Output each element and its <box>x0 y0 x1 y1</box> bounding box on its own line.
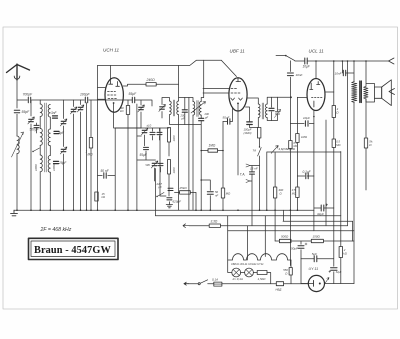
switch left low <box>32 148 39 152</box>
wire x297b <box>296 176 298 210</box>
UCL11 top cap lead <box>315 61 317 79</box>
drop x265 heater <box>264 216 266 257</box>
terminal arrow 1 <box>389 58 395 64</box>
mains wire 2 <box>208 283 214 285</box>
coil core lines <box>45 103 46 172</box>
UBF11 cathode drop <box>237 104 239 175</box>
wire 50nF <box>98 175 116 177</box>
svg-text:25kΩ: 25kΩ <box>179 186 188 190</box>
svg-text:15 nF: 15 nF <box>250 167 258 171</box>
wire coil rail left <box>39 100 41 104</box>
resistor 240ohm <box>146 78 157 86</box>
bus line 3 phono <box>189 225 348 227</box>
resistor 150ohm <box>311 235 323 243</box>
capacitor 50pF grid <box>223 116 230 125</box>
wire x73 drop <box>73 100 75 210</box>
svg-text:7A: 7A <box>253 149 257 153</box>
capacitor 3nF <box>51 111 58 118</box>
svg-text:0,1A: 0,1A <box>212 278 218 282</box>
svg-text:50μF: 50μF <box>291 247 298 251</box>
label UBF11 <box>230 49 246 54</box>
switch 7A main <box>253 146 262 156</box>
svg-text:nF: nF <box>215 194 219 198</box>
antenna <box>7 64 30 80</box>
UBF plate to IF2 <box>247 98 258 104</box>
capacitor 25pF <box>54 161 68 165</box>
svg-text:2F = 468 kHz: 2F = 468 kHz <box>40 227 72 233</box>
output transformer secondary <box>364 86 368 99</box>
svg-text:MΩ: MΩ <box>336 143 340 147</box>
secondary return <box>365 99 367 190</box>
wire agc <box>201 180 210 210</box>
trimmer top c <box>70 107 77 114</box>
label UCL11 <box>309 49 325 54</box>
wire osc cluster B <box>137 151 169 196</box>
heater right drop <box>290 260 292 284</box>
wire between coil groups 1 <box>40 117 50 129</box>
IF3 cap <box>269 108 274 110</box>
title box <box>29 238 119 259</box>
resistor 1M grid <box>200 144 223 153</box>
UBF11 top cap lead <box>221 60 236 76</box>
svg-text:2× 0,1A: 2× 0,1A <box>232 277 243 281</box>
IF3 top right <box>267 97 291 104</box>
svg-text:55μF: 55μF <box>129 92 138 96</box>
label 1000 coil B <box>52 164 56 171</box>
capacitor osc B <box>146 163 164 167</box>
coil osc A <box>168 128 176 143</box>
wire res to bus <box>127 115 129 211</box>
svg-text:T.A.: T.A. <box>240 173 246 177</box>
tube UBF11 <box>229 78 247 111</box>
capacitor 500pF <box>30 125 40 131</box>
capacitor 50uF <box>291 243 307 251</box>
svg-text:1MΩ: 1MΩ <box>209 144 216 148</box>
capacitor 5pF <box>54 131 65 135</box>
capacitor 10nF coupling <box>287 73 302 77</box>
label UY11 <box>309 267 319 271</box>
IF1 cap 200pF <box>180 110 188 121</box>
IF2 cap wires <box>200 115 202 124</box>
capacitor 10uF <box>303 58 311 69</box>
wire trimmer to bus x31 <box>30 124 32 210</box>
IF1 core <box>173 100 174 116</box>
IF2 core arrow <box>191 102 206 114</box>
wire 5uF line <box>301 258 334 260</box>
svg-text:1,5kΩ: 1,5kΩ <box>258 277 267 281</box>
svg-text:50 nF: 50 nF <box>101 169 110 173</box>
resistor 15k <box>95 192 106 201</box>
svg-text:5μF: 5μF <box>312 252 317 256</box>
wire trimmer down <box>140 112 142 128</box>
capacitor 0.1uF <box>303 170 312 179</box>
phono wires <box>250 166 260 226</box>
top rail <box>98 60 222 65</box>
IF1 top wires <box>162 66 204 119</box>
wire cathode res <box>325 91 334 93</box>
svg-text:50μF: 50μF <box>223 116 230 120</box>
wire x80 drop <box>80 100 82 210</box>
trimmer top d <box>77 105 84 112</box>
capacitor 10uF cathode <box>303 116 315 127</box>
svg-text:200: 200 <box>204 112 210 116</box>
heater left drop <box>228 216 232 273</box>
wire sw down <box>259 156 261 210</box>
svg-text:10μF: 10μF <box>303 116 310 120</box>
capacitor 32uF rect <box>329 268 342 274</box>
trimmer IF3 wires <box>272 97 278 120</box>
pot rail <box>267 151 341 153</box>
capacitor 100pF <box>80 93 91 103</box>
capacitor 32uF electro <box>317 204 328 216</box>
wire grid coupling <box>128 100 152 106</box>
filter chain wires <box>275 241 354 244</box>
UCL11 grid lead <box>297 96 307 98</box>
trimmer IF1 primary <box>159 104 166 111</box>
label lamps <box>232 277 243 281</box>
svg-text:Braun - 4547GW: Braun - 4547GW <box>34 245 112 256</box>
wire drop x31 <box>30 100 32 116</box>
resistor cathode UCH <box>120 106 130 115</box>
coil L3a <box>40 129 42 146</box>
IF1 link vertical <box>188 98 190 125</box>
svg-text:150Ω: 150Ω <box>313 235 321 239</box>
lamp wires <box>241 272 258 274</box>
contact phono 2 <box>246 180 250 183</box>
UCL11 cathode cap branch <box>290 123 314 125</box>
bus line 2 <box>156 215 341 217</box>
resistor 0.1M ucl <box>289 141 298 149</box>
variable inductor antenna coil <box>12 132 24 157</box>
resistor diode load <box>258 128 261 139</box>
trimmer osc A <box>141 124 151 135</box>
svg-text:MΩ: MΩ <box>294 144 298 148</box>
wire osc vertical x137 <box>136 104 138 210</box>
svg-text:UBF11 UCL11 UCH11 UY11: UBF11 UCL11 UCH11 UY11 <box>231 262 264 266</box>
svg-text:pF: pF <box>181 117 185 121</box>
lamp line right <box>267 273 271 284</box>
resistor cathode UCL <box>332 106 339 118</box>
wire x203 screen <box>203 60 205 97</box>
lamp 1 <box>232 268 241 277</box>
capacitor 700pF <box>23 93 34 103</box>
IF1 winding a <box>170 101 172 115</box>
resistor 550ohm <box>283 268 292 276</box>
svg-text:3,3Ω: 3,3Ω <box>211 220 218 224</box>
coil L4b <box>48 156 50 173</box>
IF1 bottom wires <box>170 115 202 211</box>
wire x201 avc drop <box>200 125 202 211</box>
IF3 winding b <box>265 104 267 118</box>
capacitor 100pF diode <box>244 122 253 135</box>
svg-text:700pF: 700pF <box>23 93 34 97</box>
wire x266 drop <box>266 152 268 210</box>
switch mains <box>198 280 208 285</box>
svg-text:32μF: 32μF <box>317 212 324 216</box>
wire diode sw <box>259 138 261 147</box>
wire 50uF down <box>300 250 302 259</box>
svg-text:32μF: 32μF <box>336 271 342 274</box>
wire x223 drop <box>222 122 224 211</box>
svg-text:WK: WK <box>146 163 151 167</box>
rail right top <box>295 60 389 62</box>
wire antenna lead <box>17 80 132 108</box>
trimmer UCH grid <box>138 105 145 112</box>
IF2 core <box>197 101 198 117</box>
svg-text:UBF 11: UBF 11 <box>230 49 246 54</box>
coil L4a <box>40 155 42 172</box>
svg-text:1000: 1000 <box>172 135 176 142</box>
svg-text:UCL 11: UCL 11 <box>309 49 325 54</box>
svg-text:10nF: 10nF <box>335 71 342 75</box>
IF3 winding a <box>258 104 260 118</box>
wire osc mid x160 <box>160 128 166 196</box>
capacitor 24.7pF <box>168 188 173 190</box>
IF3 junction dot <box>290 96 292 98</box>
capacitor 620pF <box>167 198 181 204</box>
svg-text:55pF: 55pF <box>22 110 31 114</box>
bus line 2 feed <box>155 169 157 216</box>
svg-text:1000: 1000 <box>172 167 176 174</box>
capacitor link AB <box>144 147 149 149</box>
capacitor 15nF <box>250 172 255 174</box>
svg-text:620μF: 620μF <box>173 200 182 204</box>
trimmer band b <box>60 147 67 154</box>
bus junction dots <box>16 209 298 211</box>
UCH11 cathode lead <box>114 104 141 128</box>
label 15nF <box>250 167 258 171</box>
svg-text:UY 11: UY 11 <box>309 267 319 271</box>
UBF grid wires <box>223 109 233 122</box>
volume pot 4.6M <box>271 146 296 154</box>
tube UY11 rectifier <box>308 275 324 291</box>
trimmer IF3 <box>275 110 281 118</box>
label 1000 coil A <box>34 164 38 171</box>
UBF11 left leads <box>203 89 229 94</box>
terminal arrow 2 <box>389 89 395 95</box>
resistor 25k <box>179 186 191 194</box>
wire x63 drops <box>63 100 65 210</box>
svg-text:240Ω: 240Ω <box>146 78 156 82</box>
resistor 3.3ohm <box>209 220 220 228</box>
wire osc vertical x115 <box>114 128 116 210</box>
label 55pF osc <box>140 153 148 157</box>
output transformer core <box>360 81 362 103</box>
UCL11 cathode drop <box>313 110 315 176</box>
capacitor 10nF output <box>335 70 346 76</box>
wire 0.1uF <box>297 176 314 231</box>
mains wire 3 <box>222 283 276 285</box>
IF2 cap 200pF <box>199 112 210 121</box>
trimmer osc B <box>151 161 158 168</box>
trimmer antenna <box>28 117 35 124</box>
svg-text:1000: 1000 <box>52 164 56 171</box>
plug arrow phono <box>183 224 189 228</box>
wire x86 drop <box>86 103 88 211</box>
bottom right line <box>325 283 355 285</box>
contact phono 1 <box>246 164 250 167</box>
capacitor osc A <box>150 132 162 134</box>
capacitor 5uF <box>312 252 317 262</box>
resistor 1.5k <box>257 271 267 281</box>
svg-text:(1MΩ): (1MΩ) <box>244 131 252 135</box>
ground bus main <box>14 209 314 211</box>
ground symbol osc <box>166 202 172 208</box>
plate wire to IF1 <box>123 84 178 86</box>
ground symbol left <box>11 210 18 216</box>
resistor 5k <box>364 138 373 148</box>
label UCH11 <box>103 48 119 53</box>
wire 25k <box>175 192 197 210</box>
trimmer band a <box>60 119 67 126</box>
svg-text:pF: pF <box>204 116 208 120</box>
heater chain <box>228 254 291 260</box>
coil L3b <box>48 129 50 146</box>
coil L2b <box>48 105 50 118</box>
capacitor 55pF antenna series <box>14 110 30 114</box>
resistor 0.5M out <box>292 187 299 198</box>
wire antenna coil to bus <box>16 154 18 211</box>
svg-text:НВД: НВД <box>276 288 282 292</box>
IF3 right vertical <box>267 97 271 120</box>
resistor 500ohm <box>279 235 291 243</box>
bus line 5 <box>228 230 354 232</box>
IF1 cap wires <box>184 98 186 125</box>
UCH11 plate top lead <box>109 66 111 80</box>
switch osc <box>156 193 164 198</box>
wire x297 drop <box>296 97 298 176</box>
wire x340 long <box>340 152 342 284</box>
svg-text:UCH 11: UCH 11 <box>103 48 119 53</box>
bus line 4 <box>283 220 353 222</box>
rail junction dots <box>315 60 367 62</box>
svg-text:±10: ±10 <box>147 124 152 128</box>
IF2 winding b <box>200 102 202 116</box>
wire 32uF <box>314 207 334 209</box>
coil L2a <box>40 104 42 117</box>
wire left heater drop <box>301 259 308 284</box>
lamp 2 <box>245 268 254 277</box>
mains wire 4 <box>284 283 309 285</box>
label 24.7pF <box>156 182 163 189</box>
wire x333 long <box>333 61 335 284</box>
svg-text:500pF: 500pF <box>30 128 40 132</box>
resistor 400ohm <box>273 187 283 198</box>
svg-text:1MΩ: 1MΩ <box>301 135 308 139</box>
svg-text:500Ω: 500Ω <box>281 235 289 239</box>
label heater tubes <box>231 262 264 266</box>
wire x354 long <box>353 103 355 284</box>
wire x275 <box>274 153 276 242</box>
IF2 winding a <box>193 102 195 116</box>
svg-text:0,1μF: 0,1μF <box>303 170 312 174</box>
wire osc cluster A <box>115 128 169 156</box>
wire x352 drop <box>352 221 354 241</box>
svg-text:55μF: 55μF <box>140 153 148 157</box>
coil osc B <box>168 160 176 175</box>
speaker wires <box>366 61 375 102</box>
tube UCL11 <box>307 79 325 111</box>
wire x91 drop <box>90 100 92 210</box>
UCH11 grid leads left <box>98 88 106 100</box>
mains wire <box>189 283 198 285</box>
wire 1M grid link <box>201 150 223 152</box>
stage box left edge <box>97 66 99 211</box>
svg-text:10nF: 10nF <box>296 73 303 77</box>
wire x283 link <box>283 210 285 221</box>
svg-text:25pF: 25pF <box>58 161 67 165</box>
wire x291 long <box>289 61 291 266</box>
tube UCH11 <box>105 78 123 112</box>
label TA <box>240 173 246 177</box>
IF3 core <box>262 103 263 119</box>
label IF frequency <box>40 227 72 233</box>
wire 10nF out <box>342 61 354 82</box>
svg-text:100pF: 100pF <box>80 93 91 97</box>
wire x326 <box>325 120 327 226</box>
resistor 2k <box>339 247 348 258</box>
fuse 0.1A <box>212 278 222 287</box>
resistor MD <box>221 188 231 198</box>
switch after UY11 <box>325 278 329 284</box>
resistor 1M ant <box>86 138 94 157</box>
capacitor 55pF coupling <box>129 92 138 103</box>
wire antenna coil lead <box>16 114 18 136</box>
IF1 winding b <box>177 101 179 115</box>
drop x247 heater <box>247 226 249 260</box>
resistor second cathode <box>332 139 340 148</box>
svg-text:10μF: 10μF <box>303 65 311 69</box>
wire coils to bus <box>40 172 50 210</box>
title text <box>34 245 112 256</box>
wire x347 <box>347 61 349 226</box>
capacitor 50nF agc <box>200 179 218 197</box>
switch top right <box>276 55 295 61</box>
svg-text:MΩ: MΩ <box>292 191 296 195</box>
wire x36 segment <box>36 123 38 133</box>
resistor 1M ucl grid <box>296 134 308 143</box>
svg-text:1000: 1000 <box>34 164 38 171</box>
capacitor 50nF osc <box>101 169 110 178</box>
component NVD <box>276 282 284 292</box>
svg-text:MΩ: MΩ <box>88 153 94 157</box>
speaker LS <box>375 80 392 106</box>
plug arrow mains <box>184 282 189 285</box>
output transformer primary <box>352 82 357 103</box>
detector cap branch <box>246 107 259 128</box>
wire between coil groups 2 <box>40 145 50 155</box>
